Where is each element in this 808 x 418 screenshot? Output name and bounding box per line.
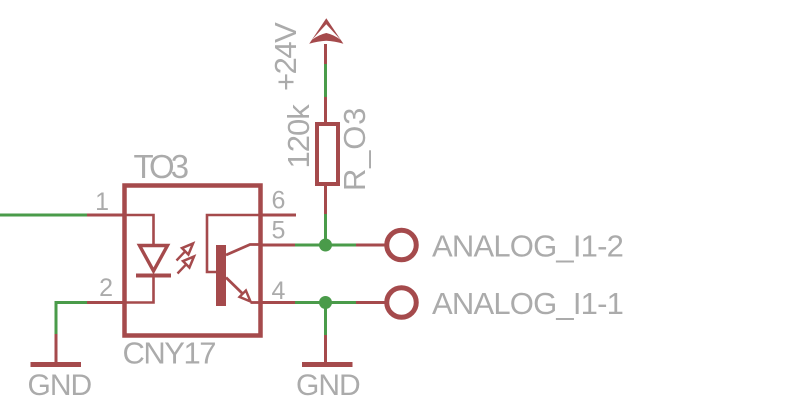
svg-text:GND: GND: [28, 369, 92, 402]
svg-text:TO3: TO3: [134, 148, 188, 185]
LED anode lead: [124, 215, 154, 245]
pin 1 stub: [86, 214, 124, 217]
ground symbol middle bar: [302, 362, 353, 367]
phototransistor emitter lead: [226, 278, 243, 294]
pin 5 stub: [259, 244, 295, 247]
emitter to pin 4: [251, 301, 260, 304]
wire junction to middle GND: [324, 303, 327, 336]
wire net +24V vertical: [324, 64, 327, 97]
phototransistor base bar: [216, 245, 226, 306]
LED cathode lead: [124, 277, 154, 303]
ground symbol left bar: [31, 362, 82, 367]
supply pin: [324, 44, 327, 64]
optocoupler IC1 box: [125, 186, 261, 336]
phototransistor emitter arrowhead: [240, 291, 251, 302]
wire resistor to junction: [324, 214, 327, 245]
connector pin ANALOG_I1-1: [356, 301, 387, 304]
photon arrow lower: [178, 257, 195, 274]
pin 2 stub: [86, 301, 124, 304]
ground symbol middle pin: [324, 335, 327, 363]
wire pin5 row: [294, 244, 356, 247]
svg-text:ANALOG_I1-1: ANALOG_I1-1: [432, 286, 623, 321]
wire net pin2 to GND corner: [56, 303, 87, 336]
supply symbol +24V arrow: [309, 18, 343, 44]
pin 4 stub: [259, 301, 295, 304]
ground symbol left pin: [55, 334, 58, 363]
svg-text:4: 4: [272, 277, 286, 305]
phototransistor base lead from pin 6: [207, 215, 259, 272]
svg-text:R_O3: R_O3: [337, 107, 372, 191]
svg-text:1: 1: [95, 188, 108, 216]
wire pin4 row: [294, 301, 356, 304]
resistor R_O3 pin top: [324, 97, 327, 124]
svg-text:ANALOG_I1-2: ANALOG_I1-2: [432, 229, 623, 264]
LED triangle: [140, 246, 168, 272]
svg-text:+24V: +24V: [268, 22, 303, 91]
svg-text:5: 5: [272, 217, 285, 245]
junction on net ANALOG_I1-2: [319, 239, 332, 252]
svg-text:6: 6: [272, 187, 285, 215]
label +24V: [268, 22, 303, 91]
photon arrow upper: [177, 244, 194, 261]
svg-text:CNY17: CNY17: [123, 336, 216, 371]
pin 6 stub: [259, 214, 296, 217]
phototransistor collector lead: [226, 245, 259, 256]
LED cathode bar: [136, 274, 171, 278]
resistor R_O3 body: [317, 124, 338, 184]
name label R_O3: [337, 107, 372, 191]
svg-text:GND: GND: [296, 369, 360, 402]
wire net to pin 1: [0, 214, 87, 217]
value label 120k: [281, 104, 316, 169]
junction on net ANALOG_I1-1: [319, 296, 332, 309]
pad circle ANALOG_I1-1: [387, 288, 417, 318]
pad circle ANALOG_I1-2: [387, 230, 417, 260]
resistor R_O3 pin bottom: [324, 184, 327, 214]
connector pin ANALOG_I1-2: [356, 244, 387, 247]
svg-text:2: 2: [99, 274, 112, 302]
svg-text:120k: 120k: [281, 104, 316, 169]
